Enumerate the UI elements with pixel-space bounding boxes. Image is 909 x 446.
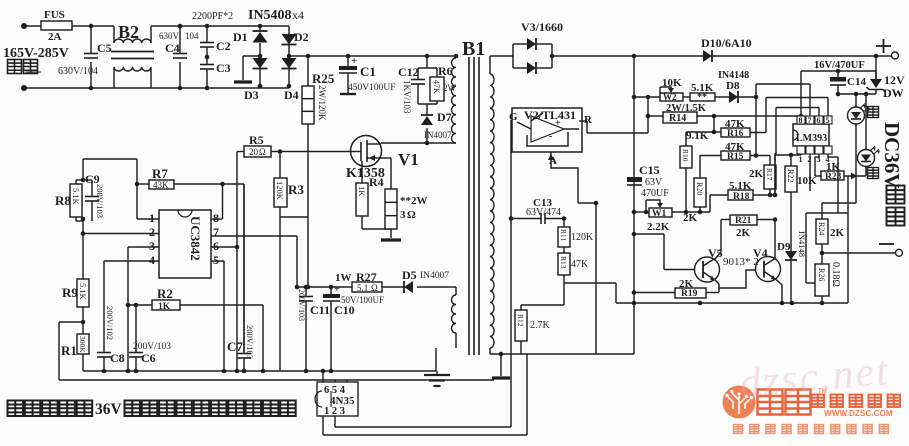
svg-text:V4: V4 bbox=[753, 246, 768, 260]
svg-text:UC3842: UC3842 bbox=[188, 216, 203, 261]
wire V3 output column bbox=[633, 56, 635, 303]
diode D9 IN4148 bbox=[790, 192, 792, 251]
wire V5 collector bbox=[720, 220, 722, 253]
svg-text:200V/103: 200V/103 bbox=[95, 184, 105, 218]
capacitor C8 200V/102 bbox=[97, 352, 111, 354]
svg-text:R8: R8 bbox=[55, 193, 71, 208]
pin 8 top bbox=[797, 116, 805, 124]
wire aux 12V node bbox=[836, 93, 876, 95]
svg-text:0.18Ω: 0.18Ω bbox=[830, 262, 841, 287]
svg-text:x4: x4 bbox=[292, 8, 304, 22]
wire V5 base bbox=[664, 269, 695, 271]
svg-text:C10: C10 bbox=[334, 303, 355, 317]
svg-text:+: + bbox=[351, 55, 357, 67]
svg-text:+: + bbox=[555, 118, 561, 129]
resistor 5.1K ** bbox=[683, 96, 690, 98]
svg-text:10K: 10K bbox=[797, 175, 817, 187]
svg-text:3: 3 bbox=[400, 209, 406, 221]
svg-text:2A: 2A bbox=[48, 31, 62, 43]
svg-text:36V: 36V bbox=[95, 401, 123, 418]
svg-text:8: 8 bbox=[213, 211, 219, 225]
svg-text:D5: D5 bbox=[402, 268, 417, 282]
wire top AC rail bbox=[24, 25, 41, 27]
transistor V1 K1358 MOSFET bbox=[351, 136, 382, 167]
potentiometer W1 2.2K bbox=[634, 211, 649, 213]
capacitor C5 bbox=[90, 26, 92, 54]
svg-text:LM393: LM393 bbox=[796, 133, 827, 144]
svg-text:43K: 43K bbox=[153, 180, 169, 190]
svg-text:IN4007: IN4007 bbox=[420, 271, 449, 281]
resistor R25 2W/120K bbox=[306, 54, 311, 59]
svg-text:C3: C3 bbox=[216, 61, 231, 75]
svg-text:47K: 47K bbox=[432, 80, 441, 94]
svg-text:C12: C12 bbox=[398, 65, 419, 79]
capacitor C12 1KV/103 bbox=[425, 54, 430, 59]
svg-text:R16: R16 bbox=[727, 129, 744, 139]
wire TL431 G column bbox=[510, 120, 512, 427]
svg-text:WWW.DZSC.COM: WWW.DZSC.COM bbox=[824, 409, 893, 418]
svg-text:5: 5 bbox=[213, 253, 219, 267]
svg-text:1W: 1W bbox=[335, 272, 352, 284]
wire secondary to V3 bbox=[490, 55, 513, 57]
svg-text:FUS: FUS bbox=[44, 9, 65, 21]
wire pin1 net bbox=[775, 154, 801, 156]
wire R16 left net bbox=[686, 131, 721, 133]
wire pin5 loop to R16 bbox=[827, 98, 829, 117]
svg-text:7: 7 bbox=[213, 225, 219, 239]
wire pin3 to R23 bbox=[818, 154, 820, 157]
wire pin6/gate column bbox=[236, 152, 238, 372]
svg-text:450V100UF: 450V100UF bbox=[348, 83, 396, 93]
svg-text:D4: D4 bbox=[284, 88, 299, 102]
wire R8 top net bbox=[83, 158, 137, 160]
wire pin5 column bbox=[223, 261, 225, 371]
wire ground rail bbox=[83, 370, 436, 372]
svg-text:2K: 2K bbox=[749, 168, 764, 180]
diode D5 IN4007 bbox=[404, 281, 413, 293]
svg-text:C11: C11 bbox=[310, 303, 330, 317]
wire gate line bbox=[237, 151, 244, 153]
watermark slogan bbox=[734, 425, 743, 434]
capacitor C11 200V/103 bbox=[305, 287, 307, 297]
svg-text:2: 2 bbox=[149, 225, 155, 239]
svg-text:B1: B1 bbox=[462, 38, 485, 60]
svg-text:D1: D1 bbox=[233, 30, 248, 44]
svg-text:47K: 47K bbox=[571, 259, 589, 270]
svg-text:R9: R9 bbox=[62, 285, 78, 300]
svg-text:1K: 1K bbox=[357, 186, 367, 197]
svg-text:4: 4 bbox=[149, 253, 155, 267]
svg-text:C2: C2 bbox=[216, 39, 231, 53]
svg-text:1KV/103: 1KV/103 bbox=[402, 80, 412, 114]
svg-text:R2: R2 bbox=[157, 286, 173, 301]
watermark weiku text bbox=[758, 390, 783, 415]
resistor R5 20ohm bbox=[244, 146, 271, 157]
resistor R20 2K bbox=[699, 155, 701, 178]
wire R2 right column bbox=[262, 305, 264, 371]
wire R7/Vref net bbox=[137, 183, 149, 185]
wire 4N35 pin2 to TL431 G bbox=[334, 416, 336, 427]
svg-text:C7: C7 bbox=[227, 339, 243, 354]
diode D4 bbox=[288, 56, 290, 58]
svg-text:V3/1660: V3/1660 bbox=[521, 20, 563, 34]
svg-text:630V/104: 630V/104 bbox=[58, 66, 98, 77]
resistor R8 5.1K bbox=[82, 159, 84, 180]
svg-text:D7: D7 bbox=[437, 110, 452, 124]
diode D3 bbox=[259, 56, 261, 58]
svg-text:R17: R17 bbox=[765, 168, 774, 181]
pin 5 top bbox=[824, 116, 832, 124]
svg-text:1K: 1K bbox=[158, 302, 171, 312]
watermark logo circle bbox=[723, 386, 756, 419]
svg-text:R25: R25 bbox=[312, 71, 335, 86]
svg-text:R12: R12 bbox=[516, 314, 525, 327]
svg-text:R6: R6 bbox=[438, 64, 453, 78]
wire left return loop bbox=[59, 321, 83, 323]
wire source bbox=[381, 157, 391, 159]
capacitor C10 50V/100UF bbox=[330, 287, 332, 294]
resistor R24 2K bbox=[816, 219, 828, 244]
svg-text:IN4007: IN4007 bbox=[424, 130, 452, 140]
transistor V4 9013 bbox=[756, 257, 781, 282]
wire 16V rail pin8 bbox=[800, 71, 802, 116]
svg-text:R: R bbox=[584, 114, 593, 126]
ground symbol primary bbox=[435, 348, 437, 371]
svg-text:R26: R26 bbox=[817, 268, 826, 281]
svg-text:2W: 2W bbox=[443, 83, 457, 93]
svg-text:R21: R21 bbox=[735, 216, 752, 226]
svg-text:D2: D2 bbox=[294, 30, 309, 44]
wire DC+ rail bbox=[289, 55, 456, 57]
svg-text:W1: W1 bbox=[652, 209, 667, 219]
resistor R26 0.18ohm bbox=[821, 253, 823, 264]
svg-text:Ω: Ω bbox=[259, 147, 266, 157]
LED green bbox=[865, 94, 867, 150]
pin 3 bottom bbox=[815, 146, 823, 154]
svg-text:6: 6 bbox=[213, 239, 219, 253]
wire bottom AC rail bbox=[24, 87, 289, 89]
svg-text:R5: R5 bbox=[249, 133, 264, 147]
svg-text:6: 6 bbox=[817, 116, 821, 125]
svg-text:C6: C6 bbox=[141, 351, 156, 365]
secondary winding bbox=[489, 56, 491, 74]
wire R23 to lower net bbox=[847, 176, 849, 303]
pin 4 bottom bbox=[824, 146, 832, 154]
diode D8 IN4148 bbox=[715, 96, 729, 98]
svg-text:200V/102: 200V/102 bbox=[105, 306, 115, 340]
IC U1 UC3842 bbox=[159, 210, 211, 278]
wire pin7 loop to D8 bbox=[809, 84, 811, 116]
svg-text:300K: 300K bbox=[78, 336, 87, 353]
wire pin4 column bbox=[103, 261, 105, 352]
pin 2 bottom bbox=[806, 146, 814, 154]
resistor 3ohm 2W source bbox=[385, 189, 397, 229]
aux winding bbox=[455, 287, 457, 295]
svg-text:D3: D3 bbox=[244, 88, 259, 102]
pin 6 top bbox=[815, 116, 823, 124]
node R9/R1 bbox=[82, 307, 84, 322]
svg-text:V5: V5 bbox=[708, 246, 723, 260]
wire fuse to B2 bbox=[72, 25, 114, 27]
svg-text:120K: 120K bbox=[275, 181, 285, 201]
IC V2/TL431 bbox=[512, 108, 582, 152]
svg-text:200V/103: 200V/103 bbox=[245, 325, 255, 359]
svg-text:50V/100UF: 50V/100UF bbox=[341, 295, 384, 305]
svg-text:7: 7 bbox=[808, 116, 812, 125]
svg-text:+: + bbox=[334, 284, 340, 295]
capacitor C14 16V/470UF bbox=[837, 71, 839, 77]
LED red bbox=[855, 94, 857, 107]
svg-text:DW: DW bbox=[883, 86, 904, 100]
zener diode DW 12V bbox=[875, 56, 877, 79]
svg-text:1: 1 bbox=[799, 155, 803, 164]
svg-text:V1: V1 bbox=[398, 150, 419, 169]
svg-text:D10/6A10: D10/6A10 bbox=[701, 36, 752, 50]
resistor R14 2W/1.5K bbox=[647, 97, 649, 133]
svg-text:63V: 63V bbox=[645, 177, 663, 188]
terminal plus bbox=[876, 45, 891, 47]
node bridge DC+ bbox=[287, 54, 292, 59]
IC LM393 bbox=[793, 124, 829, 146]
resistor R11 120K bbox=[563, 219, 565, 228]
svg-text:C5: C5 bbox=[97, 41, 112, 55]
svg-text:R1: R1 bbox=[61, 343, 77, 358]
resistor R4 1K bbox=[361, 161, 363, 183]
input terminal bottom bbox=[21, 85, 27, 91]
wire B2 to bridge top rail bbox=[151, 25, 289, 27]
IC 4N35 optocoupler bbox=[317, 382, 358, 416]
svg-text:5.1K: 5.1K bbox=[78, 283, 88, 301]
capacitor C6 200V/103 bbox=[135, 305, 137, 352]
wire divider to R12 and bus bbox=[564, 282, 616, 284]
resistor R22 10K bbox=[790, 155, 792, 166]
capacitor C1 450V100UF bbox=[346, 54, 351, 59]
wire pin7 Vcc column bbox=[296, 236, 298, 287]
wire R12 bottom bus bbox=[490, 353, 634, 355]
svg-text:2K: 2K bbox=[830, 227, 845, 239]
wire red LED to R24 bbox=[822, 202, 856, 204]
svg-text:R13: R13 bbox=[559, 256, 568, 269]
svg-text:630V: 630V bbox=[159, 31, 180, 41]
svg-text:Ω: Ω bbox=[371, 283, 378, 293]
svg-text:200V/103: 200V/103 bbox=[133, 342, 171, 352]
svg-text:C14: C14 bbox=[847, 76, 866, 88]
svg-text:R4: R4 bbox=[369, 175, 384, 189]
svg-text:R23: R23 bbox=[825, 172, 842, 182]
svg-text:120K: 120K bbox=[571, 232, 594, 243]
wire pin2 column bbox=[809, 154, 811, 191]
svg-text:W2: W2 bbox=[663, 92, 677, 102]
svg-text:R15: R15 bbox=[727, 152, 744, 162]
svg-text:104: 104 bbox=[185, 31, 199, 41]
resistor R1 300K bbox=[82, 322, 84, 334]
node bridge AC left bbox=[258, 54, 263, 59]
pin 7 top bbox=[806, 116, 814, 124]
svg-text:470UF: 470UF bbox=[641, 188, 669, 199]
svg-text:R10: R10 bbox=[681, 149, 690, 162]
capacitor C2 bbox=[206, 26, 208, 43]
ground source resistor bbox=[390, 229, 392, 238]
svg-text:C1: C1 bbox=[360, 64, 376, 79]
wire pin4 bbox=[827, 154, 829, 157]
svg-text:Ω: Ω bbox=[407, 209, 416, 221]
svg-text:C15: C15 bbox=[639, 163, 660, 177]
capacitor C4 bbox=[179, 26, 181, 54]
watermark market text bbox=[812, 395, 825, 408]
terminal minus bbox=[879, 243, 894, 245]
svg-text:2W/120K: 2W/120K bbox=[317, 85, 327, 121]
svg-text:1 2 3: 1 2 3 bbox=[324, 406, 345, 417]
transformer core bbox=[468, 57, 470, 355]
wire to + terminal bbox=[712, 55, 891, 57]
svg-text:R20: R20 bbox=[695, 182, 704, 195]
resistor R6 47K 2W bbox=[436, 68, 438, 77]
svg-text:1: 1 bbox=[149, 211, 155, 225]
wire 4N35 pin1 to R12 net bbox=[322, 416, 324, 435]
wire V4 emitter bbox=[776, 280, 782, 304]
resistor R21 2K bbox=[730, 215, 757, 225]
wire pin6 loop bbox=[818, 108, 820, 117]
wire V5 emitter / V4 base bbox=[715, 270, 756, 292]
svg-text:DC36V: DC36V bbox=[880, 122, 904, 189]
diode D7 IN4007 bbox=[426, 104, 428, 114]
svg-text:3: 3 bbox=[149, 239, 155, 253]
svg-text:R18: R18 bbox=[733, 192, 750, 202]
svg-text:2200PF*2: 2200PF*2 bbox=[192, 11, 233, 22]
title text bbox=[8, 401, 24, 417]
svg-text:IN5408: IN5408 bbox=[248, 8, 292, 23]
svg-text:200V/103: 200V/103 bbox=[297, 289, 306, 321]
wire W2 feed bbox=[634, 96, 660, 98]
wire drain node bbox=[381, 142, 456, 144]
svg-text:2.2K: 2.2K bbox=[647, 221, 670, 233]
svg-text:C4: C4 bbox=[165, 41, 180, 55]
diode D2 bbox=[288, 26, 290, 34]
svg-text:C8: C8 bbox=[110, 351, 125, 365]
wire V4 collector bbox=[774, 220, 776, 259]
ground secondary common bbox=[499, 352, 504, 357]
primary winding bbox=[454, 54, 459, 59]
svg-text:2.7K: 2.7K bbox=[530, 320, 551, 331]
resistor R3 120K bbox=[279, 152, 281, 179]
wire pin3 column bbox=[127, 247, 129, 305]
resistor R9 5.1K bbox=[82, 234, 84, 280]
svg-text:63V/474: 63V/474 bbox=[526, 207, 561, 218]
svg-text:8: 8 bbox=[799, 116, 803, 125]
svg-text:R3: R3 bbox=[288, 182, 304, 197]
svg-text:12V: 12V bbox=[884, 73, 905, 87]
input terminal top bbox=[21, 23, 27, 29]
diode D1 bbox=[258, 24, 263, 29]
capacitor C3 bbox=[200, 64, 214, 66]
wire aux supply row bbox=[297, 286, 352, 288]
fuse FUS 2A bbox=[41, 21, 72, 30]
wire minus bus bbox=[616, 302, 848, 304]
resistor R12 2.7K bbox=[520, 305, 522, 310]
wire minus output bbox=[822, 252, 896, 254]
svg-text:R19: R19 bbox=[681, 289, 698, 299]
capacitor C7 200V/103 bbox=[243, 184, 245, 354]
capacitor C9 200V/103 bbox=[91, 180, 93, 197]
svg-text:2K: 2K bbox=[736, 227, 751, 239]
svg-text:R11: R11 bbox=[559, 229, 568, 241]
transistor V5 9013 bbox=[695, 257, 720, 282]
svg-text:R7: R7 bbox=[152, 166, 168, 181]
pin 1 bottom bbox=[797, 146, 805, 154]
svg-text:-: - bbox=[549, 131, 552, 142]
svg-text:20: 20 bbox=[249, 147, 259, 157]
wire TL431 R to W2 net bbox=[579, 120, 587, 122]
svg-text:R22: R22 bbox=[786, 169, 795, 182]
wires 4N35 top pins bbox=[322, 371, 324, 382]
resistor R13 47K bbox=[563, 247, 565, 253]
svg-text:5.1K: 5.1K bbox=[71, 188, 81, 206]
svg-text:**2W: **2W bbox=[400, 195, 428, 207]
svg-text:5: 5 bbox=[826, 116, 830, 125]
svg-text:R14: R14 bbox=[669, 113, 686, 124]
svg-text:D8: D8 bbox=[726, 80, 740, 92]
svg-text:5.1: 5.1 bbox=[357, 283, 368, 293]
svg-text:**: ** bbox=[697, 92, 707, 103]
capacitor C15 63V 470UF bbox=[627, 177, 642, 182]
svg-text:R24: R24 bbox=[817, 222, 826, 235]
